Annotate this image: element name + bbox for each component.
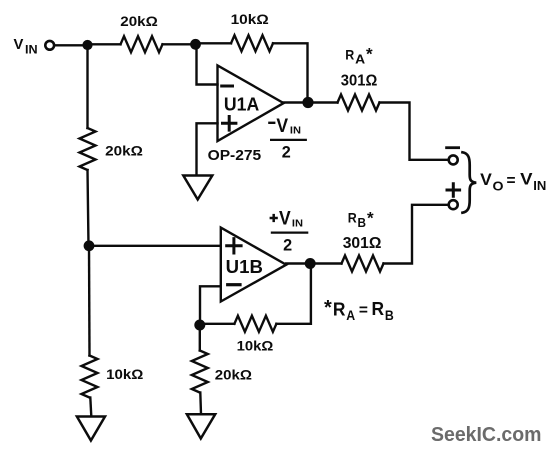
plus VIN over 2 label [270,208,309,254]
svg-text:301Ω: 301Ω [343,234,382,252]
wire to plus output terminal [384,205,449,264]
wire [88,43,121,45]
wire inverting input U1B [200,286,221,325]
wire [196,42,232,44]
node U1B output junction [305,258,316,269]
svg-text:2: 2 [283,237,292,255]
svg-text:IN: IN [290,125,301,137]
ground left rail [77,417,105,441]
svg-text:V: V [520,171,533,189]
node U1A output junction [302,97,313,108]
svg-text:=: = [507,172,516,189]
wire feedback to U1B output [276,264,311,324]
U1A minus pin mark [222,85,233,88]
svg-text:A: A [346,308,355,323]
brace output [463,152,477,212]
resistor R2 10k feedback [231,35,273,51]
op-amp U1A [218,65,284,141]
wire from node D down [199,325,201,351]
svg-text:20kΩ: 20kΩ [120,13,158,29]
RB label [348,208,374,230]
svg-text:V: V [276,116,288,137]
wire [273,43,308,102]
svg-text:20kΩ: 20kΩ [105,142,143,158]
svg-text:U1A: U1A [224,93,259,114]
wire inverting input U1A [197,45,218,85]
node A junction [82,40,92,50]
wire noninverting input U1A [197,123,218,175]
svg-text:V: V [279,208,291,229]
wire [310,262,341,264]
svg-text:301Ω: 301Ω [341,72,378,90]
resistor R1 20k [121,36,163,52]
svg-text:R: R [345,46,354,62]
wire [308,101,338,103]
resistor R6 10k vertical [82,356,98,398]
minus VIN over 2 label [268,116,307,162]
wire [90,398,91,417]
svg-text:10kΩ: 10kΩ [106,366,143,382]
svg-text:O: O [493,179,504,194]
svg-text:OP-275: OP-275 [208,147,262,164]
U1B minus pin mark [228,283,240,286]
output terminal minus [449,155,458,164]
RA equals RB note [324,297,394,323]
wire left rail lower [88,246,91,356]
wire [163,43,196,45]
node D junction [194,320,205,331]
svg-text:R: R [333,299,346,320]
svg-text:B: B [358,216,367,230]
svg-text:A: A [355,53,365,67]
minus sign output [447,146,459,149]
op-amp U1B [221,228,286,302]
resistor R5 20k vertical [192,351,208,393]
wire [199,393,202,415]
resistor R3 20k vertical [80,128,96,170]
svg-text:U1B: U1B [226,256,263,277]
svg-text:20kΩ: 20kΩ [215,367,252,383]
plus sign output [447,184,460,197]
VO equals VIN label [480,171,546,194]
wire left rail upper [86,45,88,128]
wire [55,44,87,46]
resistor R4 10k feedback B [234,316,276,332]
wire left rail middle [88,170,89,246]
ground under R5 [187,414,215,438]
svg-text:10kΩ: 10kΩ [231,11,269,27]
svg-text:V: V [14,37,24,53]
ground U1A [183,176,212,200]
RA label [345,45,373,67]
svg-text:10kΩ: 10kΩ [237,338,274,354]
svg-text:IN: IN [533,178,546,193]
wire [200,323,235,325]
svg-text:2: 2 [282,144,291,162]
svg-text:*: * [324,297,332,319]
U1B plus pin mark [227,239,241,253]
U1A plus pin mark [223,117,236,131]
svg-text:=: = [359,302,368,319]
svg-text:SeekIC.com: SeekIC.com [431,423,542,446]
svg-text:R: R [348,210,357,226]
input terminal VIN [45,41,54,50]
svg-text:V: V [480,171,492,189]
svg-text:*: * [366,45,373,64]
svg-text:IN: IN [25,42,38,56]
wire U1A output [284,101,308,103]
VIN label [14,37,38,57]
resistor RA 301 [338,95,380,111]
svg-text:IN: IN [292,217,303,229]
resistor RB 301 [342,256,384,272]
output terminal plus [449,200,458,209]
wire to minus output terminal [380,103,449,160]
wire U1B output [286,262,310,264]
svg-text:B: B [385,308,394,323]
node B junction [190,39,201,50]
svg-text:*: * [367,208,374,227]
svg-text:R: R [372,298,385,319]
node C junction [84,240,95,251]
wire noninverting input U1B [89,245,221,247]
